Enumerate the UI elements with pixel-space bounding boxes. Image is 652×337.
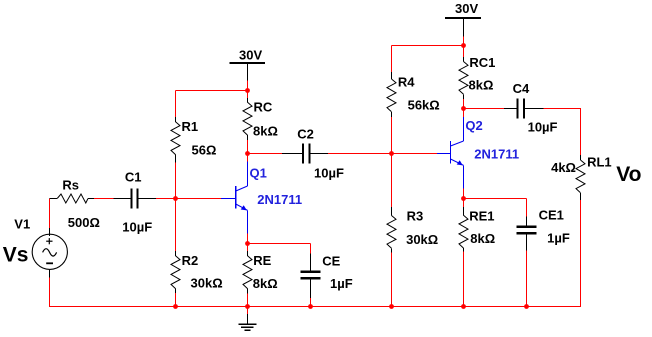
svg-text:Vo: Vo	[616, 163, 641, 186]
svg-text:8kΩ: 8kΩ	[253, 276, 278, 291]
svg-text:CE1: CE1	[539, 208, 564, 223]
svg-text:C1: C1	[125, 170, 142, 185]
svg-text:56Ω: 56Ω	[192, 143, 217, 158]
svg-text:500Ω: 500Ω	[68, 215, 100, 230]
svg-text:RL1: RL1	[587, 155, 612, 170]
svg-text:RE1: RE1	[469, 209, 494, 224]
svg-text:4kΩ: 4kΩ	[551, 160, 576, 175]
svg-text:8kΩ: 8kΩ	[469, 78, 494, 93]
svg-text:30kΩ: 30kΩ	[191, 276, 223, 291]
svg-text:R1: R1	[182, 119, 199, 134]
svg-text:Q1: Q1	[250, 165, 267, 180]
svg-text:C4: C4	[513, 81, 530, 96]
svg-text:8kΩ: 8kΩ	[253, 123, 278, 138]
svg-text:RC1: RC1	[469, 55, 495, 70]
svg-text:2N1711: 2N1711	[257, 192, 302, 207]
svg-text:30V: 30V	[239, 47, 262, 62]
svg-text:1µF: 1µF	[547, 231, 570, 246]
svg-text:Rs: Rs	[62, 178, 79, 193]
svg-text:2N1711: 2N1711	[474, 146, 519, 161]
svg-text:RC: RC	[254, 100, 273, 115]
svg-text:10µF: 10µF	[122, 220, 152, 235]
svg-text:R4: R4	[398, 74, 415, 89]
svg-text:C2: C2	[297, 126, 314, 141]
svg-text:30kΩ: 30kΩ	[406, 232, 438, 247]
svg-text:CE: CE	[322, 254, 340, 269]
svg-text:8kΩ: 8kΩ	[470, 231, 495, 246]
svg-text:1µF: 1µF	[330, 276, 353, 291]
svg-text:Vs: Vs	[3, 244, 29, 267]
svg-text:56kΩ: 56kΩ	[408, 97, 440, 112]
svg-text:RE: RE	[253, 253, 271, 268]
svg-text:30V: 30V	[455, 1, 478, 16]
svg-text:10µF: 10µF	[314, 166, 344, 181]
svg-text:R3: R3	[407, 208, 424, 223]
svg-text:10µF: 10µF	[528, 120, 558, 135]
svg-text:Q2: Q2	[465, 118, 482, 133]
svg-text:V1: V1	[14, 217, 30, 232]
svg-text:R2: R2	[182, 253, 199, 268]
